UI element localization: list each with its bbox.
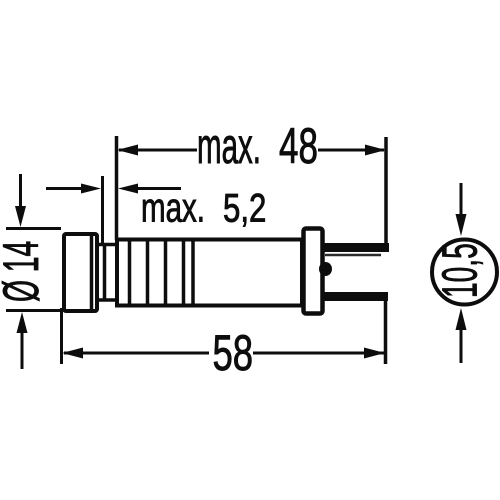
up arrowhead dia 14 [17,312,28,333]
rib line 2 [146,240,150,306]
barrel body outline [117,240,302,306]
down arrow shaft 10,5 [460,183,463,215]
svg-text:48: 48 [279,119,318,175]
svg-text:max.: max. [141,185,205,231]
rib line 4 [182,240,186,306]
leader line right of max.5,2 [136,187,181,190]
arrowhead max.48 left [117,145,138,156]
arrowhead 58 left [62,348,83,359]
extension line left of 58 [60,308,63,364]
neck top line [97,243,117,247]
collar divider line [103,243,107,302]
svg-text:58: 58 [213,325,254,381]
rib line 5 [191,240,195,306]
down arrowhead dia 14 [15,206,26,227]
rib line 1 [128,240,132,306]
arrowhead pointing left max.5,2 [118,184,138,194]
upper terminal lower edge line [325,254,381,257]
contact nub [319,262,332,276]
arrowhead max.48 right [365,145,386,156]
arrowhead pointing right max.5,2 [81,184,101,194]
up arrow shaft dia 14 [21,331,24,369]
down arrow shaft dia 14 [19,174,22,208]
dimension line 58 left segment [64,352,209,355]
dimension line max.48 right segment [318,149,384,152]
up arrow shaft 10,5 [460,328,463,363]
extension line left of max.5,2 [101,176,104,243]
svg-text:5,2: 5,2 [223,186,266,231]
arrowhead 58 right [364,348,385,359]
lens cap outline [64,234,97,311]
rear flange [304,229,323,314]
svg-text:Ø 14: Ø 14 [0,241,49,302]
extension line bottom of dia 14 [6,309,61,312]
svg-text:10,5: 10,5 [434,243,488,298]
svg-text:max.: max. [197,118,261,174]
hole circle 10,5 [432,240,497,305]
upper terminal blade [322,243,389,252]
down arrowhead 10,5 [456,214,467,236]
extension line top of dia 14 [6,227,61,230]
dimension line 58 right segment [253,352,384,355]
dimension line max.48 left segment [119,149,197,152]
lower terminal blade [322,292,388,301]
extension line right of max.48 [384,137,388,244]
neck bottom line [97,298,117,302]
extension line right of 58 [384,301,388,364]
up arrowhead 10,5 [456,308,467,330]
lens cap inner edge line [90,234,94,311]
rib line 3 [164,240,168,306]
extension line left of max.48 [115,136,119,240]
arrow shaft left of max.5,2 [46,187,84,190]
